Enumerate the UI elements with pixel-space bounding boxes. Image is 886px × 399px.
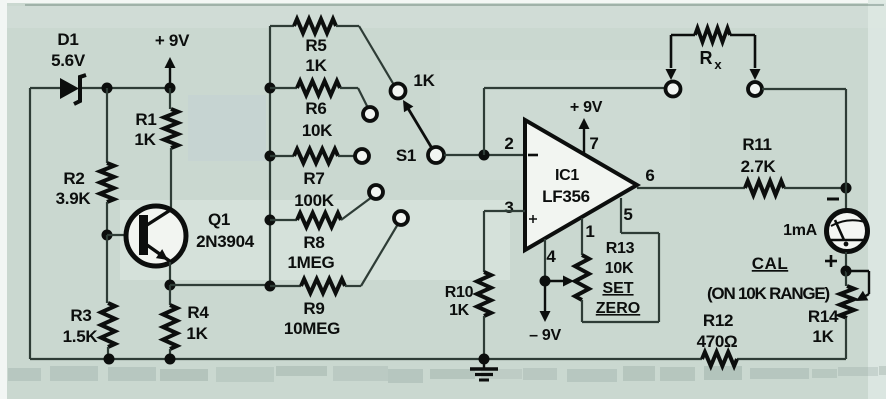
svg-text:R2: R2 [63, 169, 84, 188]
wire: riser from pin2 node to Rx rail [483, 88, 485, 155]
svg-text:6: 6 [645, 166, 654, 185]
wire: R14 bottom to bus corner [845, 318, 847, 359]
switch contact: 10MEG position [394, 211, 408, 225]
svg-text:4: 4 [546, 247, 556, 266]
resistor R11 2.7K [741, 135, 784, 195]
wire: pin 6 output to R11 [637, 187, 745, 189]
switch contact: 1MEG position [369, 185, 383, 199]
wire: R11 node to meter [845, 188, 847, 211]
wire: R6 right lead to contact [340, 87, 358, 89]
svg-text:LF356: LF356 [542, 187, 590, 206]
svg-text:5: 5 [623, 205, 632, 224]
rheostat R14 1K with wiper loop [808, 271, 869, 346]
svg-text:+ 9V: + 9V [155, 31, 190, 50]
wire: left bus vertical [29, 88, 31, 359]
svg-text:D1: D1 [57, 30, 78, 49]
ground symbol [470, 359, 498, 380]
wire: D1 anode from left bus [30, 87, 62, 89]
svg-text:SET: SET [602, 280, 633, 297]
node: ladder bus / R6 [265, 83, 276, 94]
svg-text:R11: R11 [742, 135, 771, 154]
svg-text:1.5K: 1.5K [63, 327, 99, 346]
power +9V arrow at pin 7 [570, 99, 603, 154]
node: meter / R14 wiper junction [841, 266, 852, 277]
svg-text:R10: R10 [445, 284, 474, 301]
svg-text:10K: 10K [302, 121, 333, 140]
wire: base lead into Q1 [107, 234, 127, 236]
wire: emitter row to ladder bus [170, 284, 270, 286]
wire: R9 left lead [270, 285, 301, 287]
svg-text:R4: R4 [187, 303, 209, 322]
rotary switch S1 pole and wiper arm [396, 100, 444, 165]
trimmer potentiometer R13 10K SET ZERO [575, 240, 640, 317]
node: ladder bus / R7 [265, 151, 276, 162]
op-amp IC1 LF356 [525, 120, 637, 250]
meter polarity plus [825, 255, 837, 267]
node: base junction [102, 230, 113, 241]
wire: R6 left lead [270, 87, 297, 89]
wire: R3 top lead [106, 235, 108, 303]
wire: S1 pole to op-amp pin 2 [444, 154, 525, 156]
switch contact: 1K position (selected) [391, 71, 436, 99]
svg-text:R9: R9 [303, 299, 324, 318]
wire: R4 bottom lead [169, 349, 171, 359]
resistor R10 1K [445, 272, 491, 319]
svg-text:2.7K: 2.7K [741, 157, 777, 176]
svg-text:5.6V: 5.6V [51, 51, 86, 70]
svg-text:1K: 1K [413, 71, 435, 90]
svg-text:1: 1 [585, 222, 594, 241]
svg-text:Q1: Q1 [208, 210, 230, 229]
wire: R1 top lead [169, 88, 171, 109]
meter M1 1mA [783, 211, 867, 252]
wire: R4 top lead [169, 285, 171, 305]
resistor R6 10K [297, 81, 340, 140]
svg-text:1K: 1K [134, 130, 156, 149]
wire: R5 right lead and diagonal to 1K contact [336, 25, 359, 27]
svg-text:1K: 1K [305, 56, 327, 75]
power +9V terminal (left) [155, 31, 190, 88]
wire: meter to R14 node [845, 252, 847, 271]
node: R10 / ground bus [479, 354, 490, 365]
svg-text:1K: 1K [186, 324, 208, 343]
svg-text:R6: R6 [305, 99, 326, 118]
svg-text:2: 2 [504, 134, 513, 153]
wire: right probe to right bus [762, 88, 846, 90]
svg-text:1MEG: 1MEG [288, 253, 335, 272]
resistor R5 1K [294, 19, 336, 75]
wire: R10 bottom lead [483, 316, 485, 359]
svg-text:470Ω: 470Ω [697, 332, 738, 351]
wire: D1 cathode to +9V node [82, 87, 170, 89]
resistor R1 1K [134, 109, 178, 149]
svg-text:R3: R3 [70, 306, 91, 325]
wire: pin 1 lead to R13 top [581, 218, 583, 255]
switch contact: 10K position [363, 107, 377, 121]
svg-text:R5: R5 [305, 36, 326, 55]
wire: R8 left lead [270, 219, 297, 221]
svg-text:2N3904: 2N3904 [196, 232, 255, 251]
svg-text:IC1: IC1 [555, 167, 579, 184]
wire: pin 4 lead down [544, 239, 546, 281]
svg-text:1mA: 1mA [783, 222, 818, 239]
resistor R3 1.5K [63, 303, 115, 347]
svg-text:3: 3 [504, 198, 513, 217]
svg-text:R8: R8 [303, 233, 324, 252]
wire: R8 diagonal to contact [341, 197, 372, 220]
transistor Q1 2N3904 [126, 206, 255, 266]
wiper arrow from pin4 node to R13 [545, 276, 574, 287]
svg-text:R1: R1 [135, 110, 156, 129]
switch contact: 100K position [355, 149, 369, 163]
unknown resistor Rx with probe arrows [666, 28, 761, 80]
svg-text:R14: R14 [808, 307, 839, 326]
node: R11 / right bus [841, 183, 852, 194]
svg-text:R7: R7 [303, 169, 324, 188]
wire: pin 5 routed around R13 label to R13 bottom [620, 198, 622, 233]
svg-text:x: x [714, 57, 722, 72]
svg-text:R12: R12 [703, 311, 733, 330]
svg-text:7: 7 [589, 134, 598, 153]
resistor R12 470ohm (in bottom bus) [697, 311, 738, 366]
resistor R8 1MEG [288, 213, 341, 272]
wire: bottom ground bus (left of R12) [30, 358, 702, 360]
svg-text:CAL: CAL [752, 254, 788, 273]
resistor R2 3.9K [56, 163, 114, 208]
power -9V arrow [529, 281, 561, 344]
node: pin4 / wiper / -9V junction [540, 276, 551, 287]
wire: bottom bus right of R12 [737, 358, 846, 360]
wire: right bus down to R11 node [845, 89, 847, 188]
node: +9V / R1 junction [165, 83, 176, 94]
node: D1 / R2 junction [102, 83, 113, 94]
wire: R3 bottom lead [107, 347, 109, 359]
wire: R11 to meter branch [784, 187, 846, 189]
node: R3 / bottom bus [104, 354, 115, 365]
svg-text:ZERO: ZERO [596, 300, 640, 317]
wire: rail to Rx left terminal [484, 87, 666, 89]
node: ladder bus / R9 [265, 281, 276, 292]
wire: collector lead [170, 148, 172, 209]
wire: R7 right lead [338, 155, 356, 157]
svg-text:3.9K: 3.9K [56, 189, 92, 208]
wire: R9 right lead and diagonal to contact [345, 285, 361, 287]
svg-text:10K: 10K [605, 260, 634, 277]
wire: ladder bus vertical [269, 26, 271, 286]
wire: emitter lead down [169, 262, 171, 285]
svg-text:1K: 1K [812, 327, 834, 346]
meter polarity minus [827, 198, 839, 201]
svg-text:(ON 10K RANGE): (ON 10K RANGE) [707, 284, 830, 303]
wire: R2 bottom to Q1 base node [106, 202, 108, 235]
svg-text:S1: S1 [396, 146, 416, 165]
resistor R4 1K [163, 303, 209, 349]
terminal: Rx left probe [666, 82, 681, 97]
svg-text:– 9V: – 9V [529, 327, 561, 344]
svg-text:R: R [700, 48, 713, 68]
wire: R2 top lead [106, 88, 108, 163]
wire: R5 left lead [270, 25, 294, 27]
svg-text:+ 9V: + 9V [570, 99, 603, 116]
svg-text:R13: R13 [606, 240, 635, 257]
svg-text:10MEG: 10MEG [284, 319, 340, 338]
node: emitter / R4 / R9-row junction [165, 280, 176, 291]
node: pin2 / Rx riser junction [479, 150, 490, 161]
node: ladder bus / R8 [265, 215, 276, 226]
wire: R7 left lead [270, 155, 294, 157]
node: R4 / bottom bus [165, 354, 176, 365]
svg-text:100K: 100K [294, 191, 334, 210]
resistor R9 10MEG [284, 279, 345, 338]
svg-text:1K: 1K [449, 302, 470, 319]
zener diode D1 5.6V [51, 30, 86, 104]
terminal: Rx right probe [748, 82, 762, 96]
wire: pin 3 lead to R10 [484, 210, 525, 212]
resistor R7 100K [294, 149, 338, 210]
